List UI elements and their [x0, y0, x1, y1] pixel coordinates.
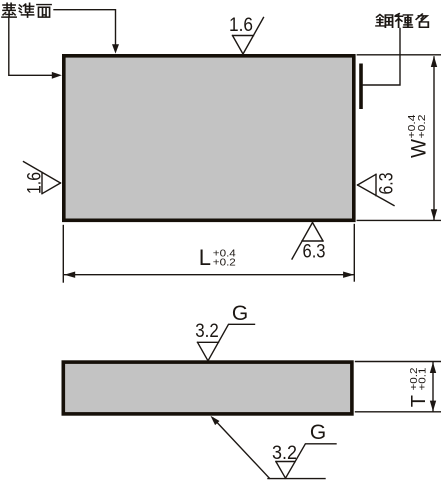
svg-text:6.3: 6.3	[377, 173, 398, 195]
leader from 基準面 to top edge of upper plate	[54, 10, 116, 45]
label 鋼種名 (steel grade name)	[376, 14, 428, 28]
leader arrowhead at bottom face	[211, 416, 220, 425]
L dimension line	[65, 274, 354, 276]
roughness symbol 3.2 G on top face of lower plate	[195, 302, 254, 361]
T dimension line	[432, 363, 434, 412]
T dimension arrow top	[430, 362, 436, 373]
svg-text:G: G	[232, 302, 248, 325]
leader from 基準面 to left edge of upper plate	[9, 18, 52, 76]
extension line from lower plate bottom-right corner (T bottom)	[356, 411, 441, 413]
lower plate (side view)	[63, 362, 352, 414]
roughness symbol 1.6 on top edge	[229, 15, 264, 54]
svg-text:1.6: 1.6	[229, 15, 253, 36]
svg-text:T: T	[408, 395, 430, 407]
leader arrow to bottom face of lower plate	[213, 418, 270, 478]
arrowhead at left edge	[52, 72, 62, 79]
svg-text:L: L	[199, 245, 211, 270]
roughness symbol 3.2 G on bottom face	[272, 421, 336, 478]
roughness symbol 6.3 on right edge	[358, 173, 398, 206]
surface line for bottom G symbol	[268, 478, 325, 480]
W dimension arrow bottom	[431, 209, 437, 220]
svg-text:+0.1: +0.1	[416, 367, 428, 390]
W dimension arrow top	[431, 56, 437, 67]
extension line below bottom-right corner (L right)	[353, 225, 355, 282]
L dimension label L +0.4/+0.2	[199, 245, 236, 270]
svg-text:6.3: 6.3	[303, 242, 326, 263]
roughness symbol 6.3 on bottom edge	[292, 223, 326, 263]
svg-text:W: W	[407, 139, 430, 158]
L dimension arrow left	[64, 272, 75, 278]
W dimension label W +0.4/+0.2	[406, 114, 430, 158]
svg-text:3.2: 3.2	[195, 321, 219, 342]
svg-text:1.6: 1.6	[25, 172, 46, 194]
W dimension line	[433, 57, 435, 220]
L dimension arrow right	[343, 272, 354, 278]
extension line from bottom-right corner horizontal (W bottom)	[357, 219, 441, 221]
extension line from top-right corner (W top)	[357, 54, 441, 56]
extension line from lower plate top-right corner (T top)	[356, 361, 441, 363]
extension line below bottom-left corner (L left)	[62, 226, 64, 283]
T dimension label T +0.2/+0.1	[408, 367, 430, 407]
svg-text:+0.2: +0.2	[213, 257, 236, 269]
label 基準面 (datum face)	[2, 3, 51, 17]
marking bar for 鋼種名 on right edge	[359, 64, 363, 110]
leader from 鋼種名 to marking bar	[363, 29, 400, 86]
T dimension arrow bottom	[430, 401, 436, 412]
svg-text:+0.2: +0.2	[416, 114, 428, 138]
svg-text:G: G	[310, 421, 326, 444]
upper plate (top view)	[64, 56, 354, 221]
svg-text:3.2: 3.2	[272, 443, 297, 464]
arrowhead at top edge	[112, 44, 119, 53]
roughness symbol 1.6 on left edge	[24, 162, 61, 194]
